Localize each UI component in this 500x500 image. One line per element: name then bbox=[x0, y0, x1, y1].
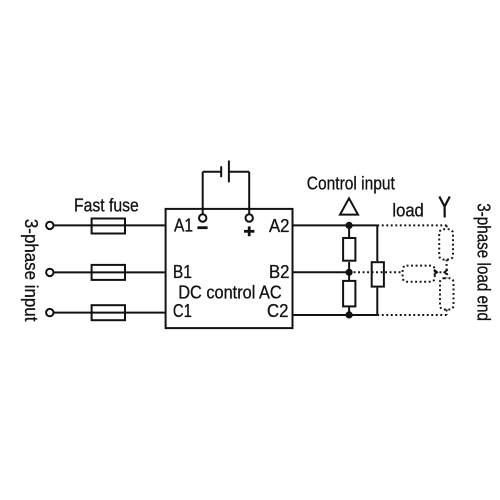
svg-text:B1: B1 bbox=[173, 262, 192, 282]
svg-text:Fast fuse: Fast fuse bbox=[74, 196, 139, 216]
svg-text:A2: A2 bbox=[269, 216, 290, 236]
svg-text:A1: A1 bbox=[174, 216, 193, 236]
svg-text:3-phase input: 3-phase input bbox=[21, 219, 41, 322]
svg-text:load: load bbox=[392, 201, 423, 221]
svg-text:Control input: Control input bbox=[307, 174, 395, 194]
svg-text:DC control AC: DC control AC bbox=[178, 282, 282, 302]
svg-text:3-phase load end: 3-phase load end bbox=[474, 203, 494, 321]
svg-text:C2: C2 bbox=[267, 301, 289, 321]
svg-text:C1: C1 bbox=[173, 301, 192, 321]
svg-text:B2: B2 bbox=[269, 262, 290, 282]
